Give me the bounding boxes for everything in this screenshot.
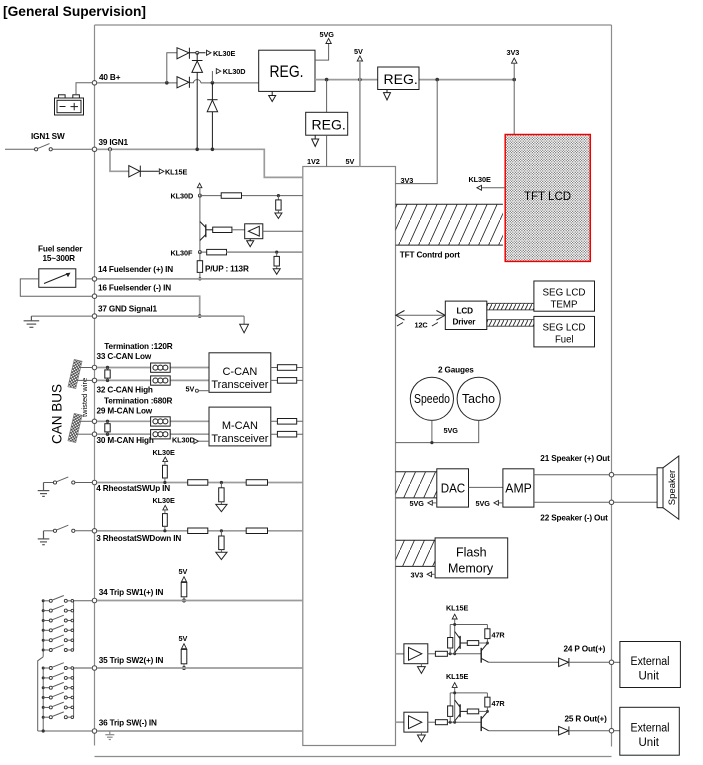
svg-text:SEG LCD: SEG LCD bbox=[543, 323, 586, 334]
wire REG2 input bbox=[326, 80, 328, 113]
wire KL15E rail P bbox=[450, 624, 487, 626]
svg-text:39 IGN1: 39 IGN1 bbox=[99, 138, 129, 147]
switch trip row bbox=[42, 696, 45, 699]
svg-text:DAC: DAC bbox=[441, 481, 466, 496]
wire 3V3 to MCU bbox=[396, 80, 438, 184]
wire fuel sender return loop bbox=[20, 279, 92, 296]
svg-text:15~300R: 15~300R bbox=[43, 254, 76, 263]
transistor Q1 bbox=[200, 222, 213, 241]
net label KL30E arrow bbox=[207, 50, 212, 55]
ground under R14 bbox=[216, 504, 227, 511]
diode D2 on B+ bbox=[177, 77, 189, 88]
net 5VG into DAC bbox=[432, 502, 437, 504]
wire C-CAN High to transceiver bbox=[97, 379, 209, 381]
pin 25 bbox=[609, 728, 614, 733]
resistor R12 bbox=[277, 431, 296, 437]
wire KL30D to KL30F vertical bbox=[199, 196, 201, 253]
svg-text:47R: 47R bbox=[492, 631, 506, 640]
switch trip row bbox=[42, 706, 45, 709]
wire to diode D1 bbox=[167, 53, 177, 83]
switch trip row bbox=[42, 629, 45, 632]
wire speaker minus bbox=[534, 501, 609, 503]
svg-text:3V3: 3V3 bbox=[507, 48, 520, 57]
bus I2C arrow bbox=[396, 314, 446, 316]
svg-text:External: External bbox=[631, 723, 670, 735]
display SEG LCD Fuel bbox=[534, 316, 595, 347]
svg-text:47R: 47R bbox=[492, 699, 506, 708]
node KL30E tap bbox=[196, 51, 199, 54]
ground under R2 bbox=[275, 213, 282, 219]
svg-text:Unit: Unit bbox=[639, 737, 660, 749]
resistor base R bbox=[467, 709, 478, 714]
svg-text:KL15E: KL15E bbox=[446, 672, 468, 681]
junction KL30D pulldown bbox=[277, 194, 280, 197]
resistor buffer out R bbox=[428, 721, 436, 723]
svg-text:Fuel sender: Fuel sender bbox=[38, 245, 83, 254]
switch SW rheostat down bbox=[44, 530, 54, 532]
ground under R17 bbox=[216, 552, 227, 559]
svg-text:KL30D: KL30D bbox=[172, 436, 195, 445]
net 5VG output bbox=[315, 44, 329, 61]
resistor buffer out P bbox=[428, 653, 436, 655]
svg-text:5V: 5V bbox=[354, 47, 363, 56]
svg-text:Flash: Flash bbox=[456, 546, 487, 560]
wire pin3 net to MCU bbox=[97, 530, 303, 532]
wire pin35 net to MCU bbox=[97, 667, 303, 669]
svg-text:Termination :680R: Termination :680R bbox=[104, 397, 173, 406]
pin 14 bbox=[92, 277, 97, 282]
wire hop on B+ over KL30E branch bbox=[189, 80, 201, 83]
svg-text:TEMP: TEMP bbox=[551, 300, 578, 311]
diode D1 to KL30E bbox=[177, 48, 206, 59]
svg-text:Memory: Memory bbox=[448, 562, 494, 576]
wire braid to pins C-CAN bbox=[79, 367, 92, 369]
pin 34 bbox=[92, 598, 97, 603]
junction base nodes R bbox=[449, 721, 452, 724]
IC C-CAN Transceiver bbox=[209, 353, 271, 393]
wire speaker plus bbox=[534, 474, 609, 476]
ground under U3 bbox=[384, 90, 391, 101]
svg-text:IGN1 SW: IGN1 SW bbox=[31, 132, 65, 141]
svg-text:REG.: REG. bbox=[384, 71, 418, 87]
regulator U3 REG bbox=[378, 67, 419, 90]
svg-text:TFT LCD: TFT LCD bbox=[524, 191, 571, 203]
wire C-CAN Low to transceiver bbox=[97, 367, 209, 369]
svg-text:5VG: 5VG bbox=[444, 426, 459, 435]
resistor R7 termination 120R bbox=[106, 366, 109, 369]
junction KL30F pulldown bbox=[275, 251, 278, 254]
switch trip row bbox=[42, 686, 45, 689]
pin 37 bbox=[92, 314, 97, 319]
pin 24 bbox=[609, 660, 614, 665]
svg-text:KL30D: KL30D bbox=[171, 192, 194, 201]
switch SW rheostat up bbox=[44, 482, 54, 484]
pin 32 bbox=[92, 378, 97, 383]
junction rail 5V bbox=[358, 78, 362, 82]
diode output P bbox=[559, 658, 569, 667]
pin 30 bbox=[92, 432, 97, 437]
wire braid to pins M-CAN bbox=[79, 420, 92, 422]
svg-text:21 Speaker (+) Out: 21 Speaker (+) Out bbox=[540, 454, 610, 463]
pin 35 bbox=[92, 666, 97, 671]
switch trip row bbox=[42, 649, 45, 652]
svg-text:P/UP : 113R: P/UP : 113R bbox=[205, 265, 249, 274]
display SEG LCD TEMP bbox=[534, 281, 595, 311]
wire M-CAN Low to transceiver bbox=[97, 420, 209, 422]
resistor R9 bbox=[277, 378, 296, 384]
svg-text:KL15E: KL15E bbox=[446, 604, 468, 613]
svg-text:5V: 5V bbox=[179, 567, 188, 576]
resistor R5 pulldown bbox=[276, 252, 278, 256]
wire pin4 net to MCU bbox=[97, 482, 303, 484]
svg-text:M-CAN: M-CAN bbox=[222, 420, 258, 432]
External Unit 2 bbox=[620, 707, 680, 755]
svg-text:36 Trip SW(-) IN: 36 Trip SW(-) IN bbox=[99, 719, 157, 728]
svg-text:AMP: AMP bbox=[505, 481, 532, 496]
junction KL30E on pin3 bbox=[163, 529, 166, 532]
wire 1V2 to MCU bbox=[326, 135, 328, 166]
svg-text:[General Supervision]: [General Supervision] bbox=[3, 4, 146, 19]
gauge Tacho bbox=[457, 377, 500, 420]
choke L4 M-CAN high bbox=[151, 430, 171, 439]
MCU main controller box bbox=[303, 167, 396, 746]
pin 21 bbox=[609, 472, 614, 477]
wire pin34 net to MCU bbox=[97, 600, 303, 602]
svg-text:KL30E: KL30E bbox=[153, 448, 175, 457]
resistor R13 bbox=[188, 480, 208, 486]
pin 29 bbox=[92, 419, 97, 424]
svg-text:3V3: 3V3 bbox=[411, 571, 424, 580]
svg-text:5VG: 5VG bbox=[476, 499, 491, 508]
svg-text:32 C-CAN High: 32 C-CAN High bbox=[97, 385, 153, 394]
battery BAT bbox=[55, 95, 84, 115]
resistor R16 bbox=[188, 528, 208, 534]
comparator U4 bbox=[245, 224, 263, 239]
junction pulldown pin4 bbox=[220, 481, 223, 484]
pin 22 bbox=[609, 500, 614, 505]
svg-text:3 RheostatSWDown IN: 3 RheostatSWDown IN bbox=[96, 534, 181, 543]
resistor R6 P/UP 113R bbox=[199, 252, 201, 261]
junction IGN1 D3 bbox=[211, 148, 215, 152]
diode D5 to KL15E bbox=[129, 166, 159, 177]
buffer UR bbox=[404, 712, 428, 732]
junction rail 3V3 LCD bbox=[512, 78, 516, 82]
svg-text:2 Gauges: 2 Gauges bbox=[438, 366, 474, 375]
svg-text:24 P Out(+): 24 P Out(+) bbox=[564, 644, 606, 653]
wire B+ rail bbox=[97, 82, 177, 84]
wire DAC to AMP bbox=[469, 486, 503, 488]
ground under U2 bbox=[312, 135, 319, 146]
wire M-CAN High to transceiver bbox=[97, 433, 209, 435]
svg-text:5VG: 5VG bbox=[320, 30, 335, 39]
pin 40 bbox=[92, 81, 97, 86]
svg-text:34 Trip SW1(+) IN: 34 Trip SW1(+) IN bbox=[99, 588, 164, 597]
svg-text:4 RheostatSWUp IN: 4 RheostatSWUp IN bbox=[96, 484, 170, 493]
switch trip row bbox=[42, 599, 45, 602]
net 3V3 into Flash bbox=[432, 573, 436, 575]
twisted pair braid M-CAN bbox=[68, 413, 82, 442]
wire pin14 net to MCU bbox=[97, 278, 303, 280]
svg-text:1V2: 1V2 bbox=[307, 157, 320, 166]
bus MCU to Flash bbox=[396, 540, 436, 566]
svg-text:Transceiver: Transceiver bbox=[211, 433, 268, 445]
svg-text:Tacho: Tacho bbox=[462, 392, 495, 406]
wire battery to pin 40 bbox=[76, 83, 92, 95]
svg-text:29 M-CAN Low: 29 M-CAN Low bbox=[97, 407, 153, 416]
wire pin36 net to MCU bbox=[97, 730, 303, 732]
diode output R bbox=[559, 726, 569, 735]
wire KL15E rail R bbox=[450, 692, 487, 694]
net label KL15E arrow bbox=[159, 169, 164, 174]
wire C-CAN TX out bbox=[271, 367, 303, 369]
net label KL30D arrow bbox=[211, 71, 213, 83]
TFT LCD module bbox=[505, 135, 590, 262]
diode D4 clamp on KL30E branch bbox=[192, 53, 203, 150]
resistor R2 pulldown bbox=[277, 196, 279, 200]
transistor QRb bbox=[481, 712, 488, 731]
junction pin16 to gnd line bbox=[198, 314, 202, 318]
wire gauges 5VG bbox=[431, 420, 433, 442]
choke L1 C-CAN low bbox=[151, 363, 171, 372]
svg-text:22 Speaker (-) Out: 22 Speaker (-) Out bbox=[540, 514, 608, 523]
svg-text:Transceiver: Transceiver bbox=[211, 379, 268, 391]
wire fuel sender to pin 14 bbox=[76, 278, 92, 280]
IC Flash Memory bbox=[435, 538, 508, 578]
resistor R1 on KL30D line bbox=[221, 193, 241, 199]
bus LCD driver to SEG LCD Fuel bbox=[487, 320, 534, 327]
junction P/UP on pin14 line bbox=[198, 277, 201, 280]
speaker LS1 bbox=[657, 468, 663, 508]
wire KL30F line to MCU bbox=[227, 251, 303, 253]
trip switch bank 1 bbox=[38, 601, 74, 731]
resistor R15 bbox=[246, 480, 267, 486]
svg-text:REG.: REG. bbox=[270, 63, 304, 81]
svg-text:CAN BUS: CAN BUS bbox=[50, 384, 65, 444]
ground earth SWUp bbox=[38, 483, 50, 497]
svg-text:5VG: 5VG bbox=[410, 499, 425, 508]
wire trip common negative bbox=[38, 730, 92, 732]
resistor R3 base bbox=[213, 227, 232, 232]
svg-text:Fuel: Fuel bbox=[555, 335, 574, 346]
pin 36 bbox=[92, 729, 97, 734]
junction on B+ node bbox=[165, 81, 169, 85]
switch trip row bbox=[42, 639, 45, 642]
junction bank2 bus on negative bbox=[42, 729, 45, 732]
svg-text:14 Fuelsender (+) IN: 14 Fuelsender (+) IN bbox=[98, 265, 173, 274]
svg-text:3V3: 3V3 bbox=[401, 176, 414, 185]
bus LCD driver to SEG LCD TEMP bbox=[487, 303, 534, 310]
resistor R4 on KL30F line bbox=[200, 251, 207, 253]
trip switch bank 2 bbox=[43, 668, 73, 731]
svg-text:KL30E: KL30E bbox=[153, 496, 175, 505]
junction IGN1 KL15E tap bbox=[108, 148, 111, 151]
wire 5V rail from U1 bbox=[315, 79, 378, 81]
svg-text:5V: 5V bbox=[186, 385, 195, 394]
svg-text:KL30D: KL30D bbox=[223, 67, 246, 76]
resistor R14 pulldown bbox=[220, 483, 222, 488]
resistor bias P bbox=[449, 625, 451, 638]
ground under U1 bbox=[269, 91, 276, 101]
regulator U1 REG bbox=[259, 50, 315, 91]
wire IGN1 net bbox=[97, 149, 303, 177]
transistor QPb bbox=[481, 643, 488, 662]
svg-text:KL30F: KL30F bbox=[171, 249, 193, 258]
svg-text:30 M-CAN High: 30 M-CAN High bbox=[97, 436, 154, 445]
pin 3 bbox=[92, 529, 97, 534]
IC DAC bbox=[437, 469, 469, 507]
resistor R10 termination 680R bbox=[106, 420, 109, 423]
svg-text:External: External bbox=[631, 656, 670, 668]
resistor R18 bbox=[246, 528, 267, 534]
unit frame top edge bbox=[95, 24, 612, 26]
svg-text:KL30E: KL30E bbox=[213, 49, 235, 58]
IC LCD Driver bbox=[445, 301, 487, 329]
junction KL30E on pin4 bbox=[163, 481, 166, 484]
pin 39 bbox=[92, 147, 97, 152]
svg-text:12C: 12C bbox=[415, 321, 429, 330]
svg-text:Termination :120R: Termination :120R bbox=[104, 342, 173, 351]
resistor 47R P bbox=[486, 625, 488, 629]
gauge Speedo bbox=[410, 377, 453, 420]
pin 4 bbox=[92, 480, 97, 485]
choke L3 M-CAN low bbox=[151, 417, 171, 426]
svg-text:Driver: Driver bbox=[453, 318, 477, 327]
junction base nodes P bbox=[449, 652, 452, 655]
junction KL30D tap on B+ bbox=[211, 81, 215, 85]
transistor QRa bbox=[455, 700, 468, 721]
junction rail 3V3 MCU bbox=[435, 78, 439, 82]
wire trip bank2 common to pin35 bbox=[74, 667, 92, 669]
svg-text:5V: 5V bbox=[179, 634, 188, 643]
svg-text:37 GND Signal1: 37 GND Signal1 bbox=[98, 305, 157, 314]
ground earth at pin36 bbox=[105, 731, 114, 740]
svg-text:33 C-CAN Low: 33 C-CAN Low bbox=[97, 352, 152, 361]
resistor 47R R bbox=[486, 693, 488, 697]
svg-text:LCD: LCD bbox=[457, 307, 474, 316]
unit frame right edge bbox=[611, 25, 613, 747]
switch trip row bbox=[42, 716, 45, 719]
IC M-CAN Transceiver bbox=[209, 407, 271, 446]
resistor R8 bbox=[277, 365, 296, 371]
wire M-CAN TX out bbox=[271, 420, 303, 422]
bus TFT control port bbox=[396, 204, 503, 245]
svg-text:TFT Contrd port: TFT Contrd port bbox=[400, 251, 460, 260]
svg-text:twisted wire: twisted wire bbox=[80, 378, 89, 417]
wire output R bbox=[489, 730, 559, 732]
wire pin37 external bbox=[31, 315, 92, 317]
wire MCU to buffer P bbox=[396, 653, 404, 655]
unit frame left edge bbox=[94, 25, 96, 746]
resistor bias R bbox=[449, 693, 451, 706]
ground earth SWDown bbox=[38, 531, 50, 545]
svg-text:KL15E: KL15E bbox=[165, 168, 187, 177]
switch trip row bbox=[42, 609, 45, 612]
svg-text:Speedo: Speedo bbox=[414, 392, 450, 406]
resistor R17 pulldown bbox=[220, 531, 222, 536]
wire M-CAN RX out bbox=[271, 433, 303, 435]
svg-text:35 Trip SW2(+) IN: 35 Trip SW2(+) IN bbox=[99, 656, 164, 665]
svg-text:5V: 5V bbox=[346, 157, 355, 166]
pin 16 bbox=[92, 294, 97, 299]
wire KL30D line to MCU bbox=[200, 195, 303, 197]
wire MCU to buffer R bbox=[396, 721, 404, 723]
svg-text:16 Fuelsender (-) IN: 16 Fuelsender (-) IN bbox=[98, 284, 171, 293]
ground under U4 bbox=[247, 239, 254, 247]
IC AMP bbox=[503, 469, 534, 507]
svg-text:REG.: REG. bbox=[312, 117, 346, 133]
ground earth left bbox=[24, 316, 40, 327]
ground under buffer P bbox=[420, 664, 422, 667]
svg-text:SEG LCD: SEG LCD bbox=[543, 288, 586, 299]
svg-text:C-CAN: C-CAN bbox=[222, 366, 257, 378]
unit frame bottom edge bbox=[95, 756, 612, 758]
ground under buffer R bbox=[420, 732, 422, 735]
resistor R11 bbox=[277, 419, 296, 425]
regulator U2 REG bbox=[306, 112, 348, 135]
wire KL15E branch bbox=[110, 149, 129, 171]
pin 33 bbox=[92, 365, 97, 370]
svg-text:40 B+: 40 B+ bbox=[99, 73, 121, 82]
buffer UP bbox=[404, 644, 428, 664]
wire output P bbox=[489, 661, 559, 663]
External Unit 1 bbox=[620, 642, 681, 688]
junction rail to REG2 bbox=[325, 78, 329, 82]
diode D3 clamp B+ to IGN1 bbox=[207, 83, 217, 150]
twisted pair braid C-CAN bbox=[68, 359, 82, 388]
resistor base P bbox=[467, 641, 478, 646]
ground signal triangle bbox=[240, 324, 249, 333]
net 5VG into AMP bbox=[498, 502, 503, 504]
transistor QPa bbox=[455, 632, 468, 653]
bus MCU to DAC bbox=[396, 472, 437, 498]
svg-text:KL30E: KL30E bbox=[469, 175, 491, 184]
wire pin37 net bbox=[97, 315, 244, 317]
wire C-CAN RX out bbox=[271, 379, 303, 381]
switch trip row bbox=[42, 667, 45, 670]
svg-text:25 R Out(+): 25 R Out(+) bbox=[565, 714, 608, 723]
wire pin16 net bbox=[97, 296, 200, 316]
choke L2 C-CAN high bbox=[151, 376, 171, 385]
svg-text:Unit: Unit bbox=[639, 671, 660, 683]
wire 5V to MCU bbox=[359, 61, 361, 167]
switch trip row bbox=[42, 676, 45, 679]
svg-text:Speaker: Speaker bbox=[667, 470, 678, 505]
wire 3V3 to TFT LCD bbox=[513, 63, 515, 134]
junction IGN1 D4 bbox=[195, 148, 199, 152]
switch trip row bbox=[42, 619, 45, 622]
wire U4 out to MCU bbox=[263, 230, 303, 232]
wire trip bank1 common to pin34 bbox=[74, 600, 92, 602]
junction pulldown pin3 bbox=[220, 529, 223, 532]
ground under R5 bbox=[273, 269, 280, 275]
